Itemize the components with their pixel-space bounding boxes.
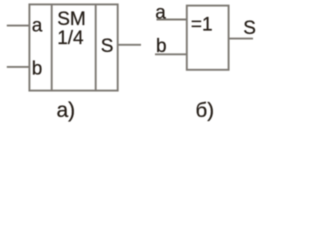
- svg-text:а): а): [57, 99, 76, 122]
- svg-text:b: b: [32, 59, 43, 80]
- svg-text:1/4: 1/4: [57, 28, 84, 49]
- svg-text:a: a: [155, 3, 166, 24]
- svg-text:б): б): [196, 99, 215, 122]
- svg-text:S: S: [243, 18, 256, 39]
- svg-text:b: b: [156, 36, 167, 57]
- svg-text:S: S: [101, 36, 114, 57]
- svg-text:=1: =1: [191, 15, 213, 36]
- svg-text:a: a: [32, 16, 43, 37]
